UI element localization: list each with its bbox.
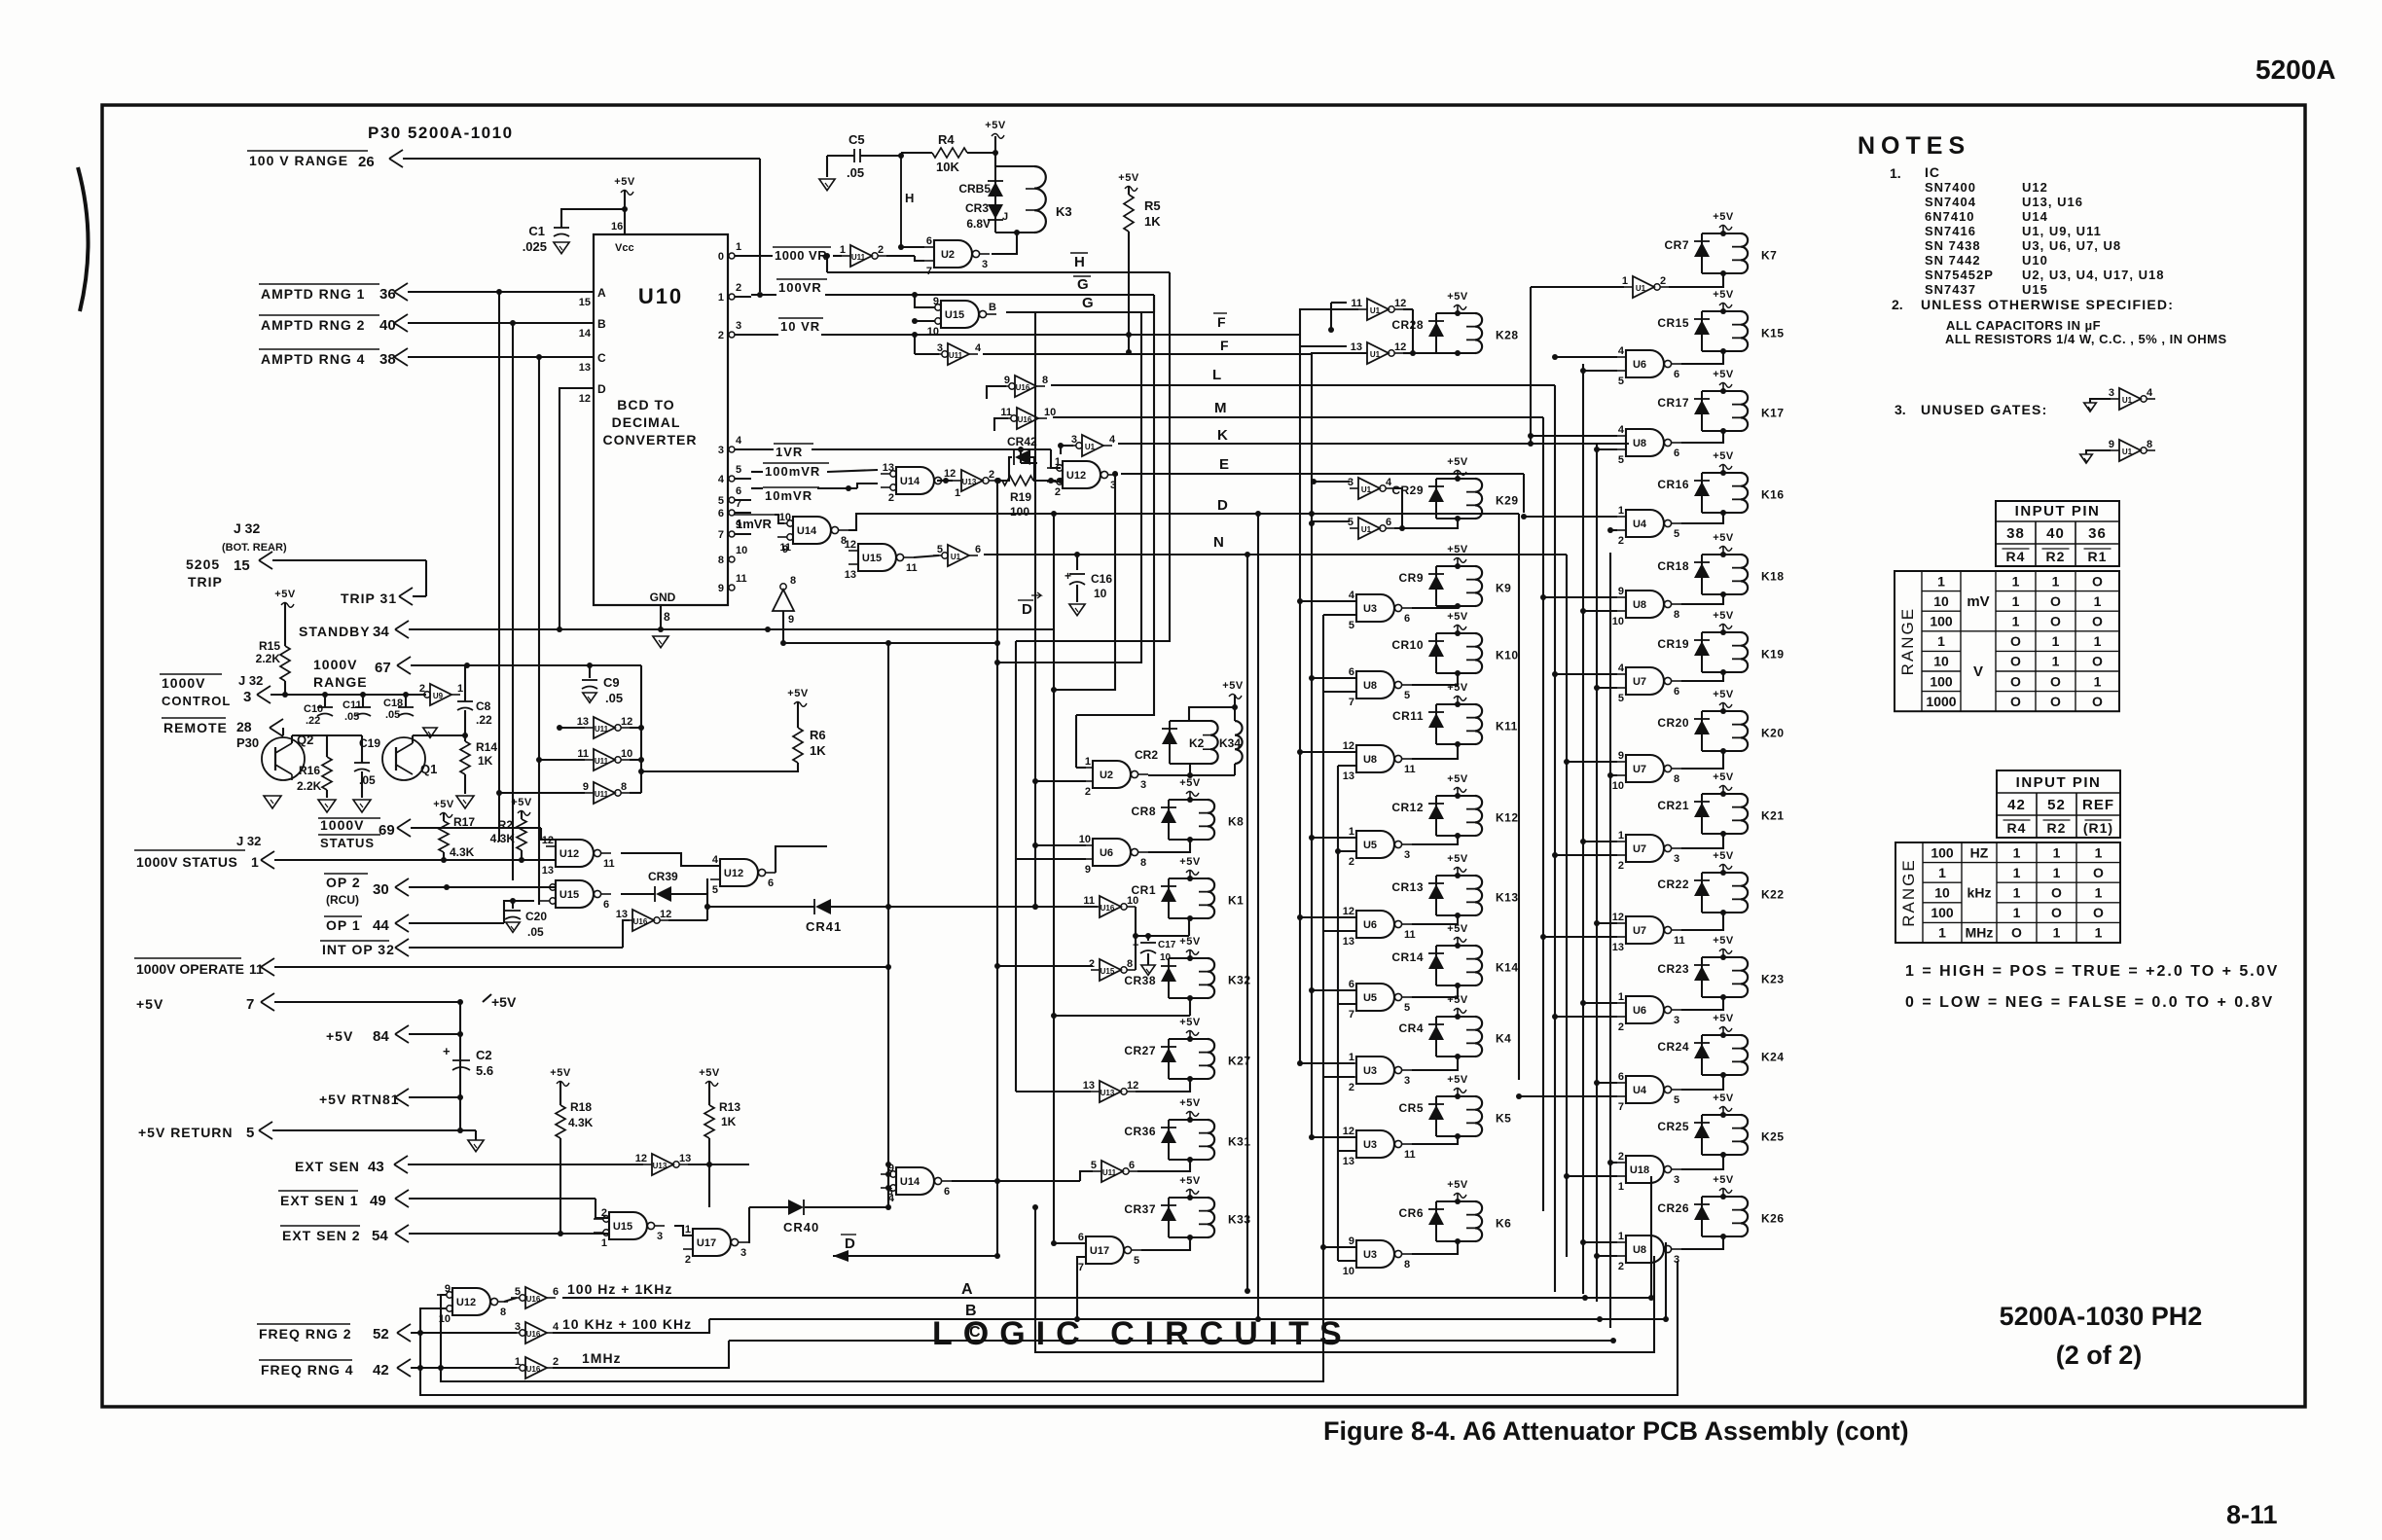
svg-text:C17: C17: [1158, 940, 1176, 950]
net D bus: [848, 514, 1519, 530]
svg-text:U11: U11: [851, 253, 866, 262]
svg-text:CR11: CR11: [1392, 709, 1424, 723]
svg-text:K13: K13: [1496, 891, 1519, 905]
svg-text:100: 100: [1931, 905, 1954, 920]
svg-text:4: 4: [736, 435, 742, 447]
nor gate U15c: [941, 301, 979, 328]
svg-text:0: 0: [718, 251, 724, 263]
svg-text:100: 100: [1010, 505, 1029, 519]
svg-text:+5V: +5V: [433, 799, 454, 810]
svg-text:U6: U6: [1633, 359, 1646, 371]
svg-text:5: 5: [515, 1286, 521, 1298]
svg-text:7: 7: [1349, 1009, 1354, 1021]
svg-text:K10: K10: [1496, 649, 1519, 663]
svg-text:1.: 1.: [1890, 165, 1901, 181]
svg-text:R6: R6: [810, 728, 826, 742]
capacitor C17: [1147, 936, 1149, 941]
svg-text:K9: K9: [1496, 582, 1511, 595]
svg-text:SN7416: SN7416: [1925, 224, 1976, 238]
svg-text:G: G: [1082, 295, 1094, 311]
svg-text:3.: 3.: [1895, 402, 1906, 417]
nand gate U7 colC5: [1626, 755, 1664, 782]
IC U10 BCD to decimal converter: [594, 234, 728, 605]
svg-text:U2: U2: [1100, 770, 1113, 781]
svg-text:7: 7: [246, 996, 254, 1013]
svg-text:U1: U1: [1370, 306, 1381, 315]
wire colB inputs: [1314, 481, 1350, 483]
U10 pin 12: [569, 387, 594, 389]
svg-text:5: 5: [712, 884, 718, 896]
svg-text:CR41: CR41: [806, 919, 842, 934]
svg-text:A: A: [961, 1281, 973, 1298]
net H: [900, 156, 902, 247]
wire K3 bottom to U2: [992, 233, 1017, 254]
svg-text:+5V: +5V: [985, 120, 1006, 131]
svg-text:+5V: +5V: [699, 1067, 720, 1079]
wire U6 to relay C: [1681, 997, 1723, 1010]
svg-text:1: 1: [2053, 844, 2061, 860]
svg-text:O: O: [2010, 673, 2021, 689]
svg-text:B: B: [965, 1303, 977, 1319]
svg-text:3: 3: [1404, 1075, 1410, 1087]
svg-text:13: 13: [1083, 1080, 1095, 1092]
svg-text:9: 9: [1618, 586, 1624, 597]
svg-text:4: 4: [712, 854, 719, 866]
svg-text:1: 1: [2012, 593, 2020, 609]
svg-text:ALL RESISTORS 1/4 W, C.C. ,: ALL RESISTORS 1/4 W, C.C. , 5% , IN OHMS: [1945, 332, 2227, 346]
svg-text:2: 2: [1618, 1021, 1624, 1033]
svg-text:1: 1: [2095, 885, 2103, 901]
svg-text:U13: U13: [1101, 1089, 1115, 1097]
svg-text:P30 5200A-1010: P30 5200A-1010: [368, 124, 514, 142]
svg-text:+5V: +5V: [1447, 1179, 1468, 1191]
svg-text:STANDBY: STANDBY: [299, 624, 371, 639]
net L bus: [1051, 384, 1555, 386]
svg-text:13: 13: [1612, 942, 1624, 953]
svg-text:10mVR: 10mVR: [765, 488, 812, 503]
relay K8: [1168, 800, 1170, 840]
svg-text:0 = LOW = NEG = FALSE = 0.0: 0 = LOW = NEG = FALSE = 0.0 TO + 0.8V: [1905, 994, 2274, 1011]
svg-text:CONTROL: CONTROL: [162, 694, 231, 708]
wire colC gate 10 inputs: [1610, 1162, 1617, 1164]
svg-text:K12: K12: [1496, 811, 1519, 825]
wire to U12d: [1058, 478, 1064, 483]
svg-text:8: 8: [718, 555, 724, 566]
svg-text:12: 12: [845, 539, 856, 551]
svg-text:U15: U15: [559, 889, 579, 901]
svg-text:U8: U8: [1633, 438, 1646, 449]
svg-text:R2: R2: [498, 818, 514, 832]
svg-text:O: O: [2092, 694, 2103, 709]
svg-text:5: 5: [246, 1125, 254, 1141]
inverter U1 K7: [1633, 276, 1654, 298]
svg-text:11: 11: [736, 573, 747, 585]
svg-text:8: 8: [2147, 439, 2152, 450]
svg-text:SN 7438: SN 7438: [1925, 238, 1981, 253]
svg-text:O: O: [2010, 654, 2021, 669]
svg-text:1: 1: [1937, 573, 1945, 589]
svg-text:U1: U1: [1636, 284, 1646, 293]
nor gate U14d: [896, 1167, 934, 1195]
svg-text:R4: R4: [2006, 549, 2026, 564]
svg-text:CR14: CR14: [1391, 950, 1424, 964]
inverter U11f: [1101, 1161, 1123, 1182]
svg-text:+5V: +5V: [1713, 850, 1734, 862]
wire C riser from freq: [553, 1341, 729, 1368]
wire U6 to relay: [1412, 915, 1458, 924]
svg-text:O: O: [2050, 694, 2061, 709]
svg-text:1: 1: [2053, 925, 2061, 941]
svg-text:O: O: [2050, 593, 2061, 609]
svg-text:CR18: CR18: [1657, 559, 1689, 573]
page border frame: [102, 105, 2305, 1407]
svg-text:10: 10: [1612, 780, 1624, 792]
svg-text:10: 10: [1933, 593, 1949, 609]
nand gate U6 colB4: [1356, 911, 1394, 938]
svg-text:10: 10: [779, 512, 791, 523]
buffer U1 K: [1082, 435, 1103, 456]
svg-text:U11: U11: [595, 790, 609, 799]
svg-text:K1: K1: [1228, 894, 1244, 908]
nor gate U12a: [556, 840, 594, 867]
svg-text:DECIMAL: DECIMAL: [612, 414, 681, 430]
inverter U16c: [525, 1322, 547, 1343]
svg-text:EXT SEN: EXT SEN: [295, 1159, 360, 1174]
wire colA inputs: [1076, 767, 1086, 769]
svg-text:1K: 1K: [810, 743, 826, 758]
net F bus: [983, 353, 1312, 355]
wire U3 to relay: [1412, 1057, 1458, 1070]
nand gate U2a: [934, 240, 972, 268]
wire K32 bottom feed: [1189, 998, 1191, 1016]
nand gate U8 colC11: [1626, 1236, 1664, 1263]
relay K32: [1168, 958, 1170, 998]
wire colC gate 0 inputs: [1555, 356, 1617, 358]
svg-text:8: 8: [1127, 958, 1133, 970]
svg-text:11: 11: [1404, 929, 1416, 941]
svg-text:P30: P30: [236, 735, 259, 750]
svg-text:R4: R4: [938, 132, 955, 147]
wire U3 to relay: [1412, 1136, 1458, 1144]
svg-text:15: 15: [579, 297, 591, 308]
relay K18: [1701, 555, 1703, 594]
svg-text:1: 1: [2094, 673, 2102, 689]
relay K9: [1435, 566, 1437, 606]
svg-text:4.3K: 4.3K: [568, 1116, 594, 1129]
inverter U16a: [632, 910, 654, 931]
wire riser 1360: [1322, 615, 1324, 1261]
nand gate U17b: [1086, 1236, 1124, 1264]
ground at R16: [318, 800, 336, 812]
table input pin 38 40 36: [1996, 501, 2119, 566]
ground at C5: [826, 156, 828, 177]
relay K23: [1701, 957, 1703, 997]
svg-text:CR12: CR12: [1391, 801, 1424, 814]
svg-text:7: 7: [1618, 1101, 1624, 1113]
wire U5 to relay: [1412, 985, 1458, 997]
wire U7 to relay C: [1681, 834, 1723, 848]
svg-text:U13: U13: [962, 478, 977, 486]
svg-text:6: 6: [603, 899, 609, 911]
svg-text:U16: U16: [526, 1295, 541, 1304]
svg-text:1000V STATUS: 1000V STATUS: [136, 854, 237, 870]
svg-text:+5V: +5V: [1179, 856, 1201, 868]
svg-text:12: 12: [542, 835, 554, 846]
svg-text:11: 11: [1404, 764, 1416, 775]
svg-text:D: D: [1022, 601, 1032, 618]
svg-text:3: 3: [657, 1231, 663, 1242]
svg-text:6: 6: [718, 508, 724, 519]
svg-text:C8: C8: [476, 699, 491, 713]
svg-text:5: 5: [1674, 528, 1679, 540]
svg-text:84: 84: [373, 1028, 389, 1045]
svg-text:REF: REF: [2082, 797, 2114, 813]
svg-text:C: C: [597, 351, 606, 365]
wire U8 to relay C: [1681, 1236, 1723, 1249]
wire U6a to K8: [1148, 840, 1190, 852]
svg-text:+5V: +5V: [1179, 1175, 1201, 1187]
svg-text:C11: C11: [343, 699, 362, 711]
svg-text:1: 1: [515, 1356, 521, 1368]
svg-text:7: 7: [1349, 697, 1354, 708]
svg-text:H: H: [1074, 254, 1085, 270]
svg-text:O: O: [2010, 694, 2021, 709]
inverter U16d: [525, 1357, 547, 1379]
svg-text:13: 13: [579, 362, 591, 374]
svg-text:TRIP 31: TRIP 31: [341, 591, 397, 606]
wire Q2 collector: [291, 735, 293, 743]
svg-text:U15: U15: [2022, 282, 2048, 297]
svg-text:U3: U3: [1363, 1249, 1377, 1261]
wire U4 to relay C: [1681, 513, 1723, 523]
relay K31: [1168, 1120, 1170, 1160]
transistor Q2: [262, 737, 305, 780]
svg-text:H: H: [905, 191, 914, 205]
svg-text:+5V: +5V: [1179, 777, 1201, 789]
svg-text:6: 6: [1349, 666, 1354, 678]
wire U14d out: [952, 1180, 1080, 1182]
svg-text:CR13: CR13: [1391, 880, 1424, 894]
svg-text:+5V: +5V: [1447, 773, 1468, 785]
svg-text:K23: K23: [1761, 973, 1785, 986]
svg-text:13: 13: [616, 909, 628, 920]
svg-text:6: 6: [1129, 1160, 1135, 1171]
svg-text:52: 52: [373, 1326, 389, 1343]
wire U12c inputs: [441, 1295, 447, 1368]
inverter U1 K29a: [1358, 478, 1380, 499]
wire U11a to U2a: [886, 255, 915, 257]
buffer U16 M: [1017, 408, 1038, 429]
relay K3: [994, 166, 996, 233]
svg-text:2: 2: [419, 683, 425, 695]
svg-text:100: 100: [1931, 844, 1954, 860]
svg-text:1: 1: [2094, 593, 2102, 609]
wire U4 to relay C: [1681, 1075, 1723, 1090]
svg-text:3: 3: [718, 445, 724, 456]
svg-text:L: L: [1212, 367, 1221, 383]
svg-text:O: O: [2051, 885, 2062, 901]
svg-text:O: O: [2092, 654, 2103, 669]
wire U12a to U12b: [621, 853, 720, 866]
svg-text:11: 11: [906, 562, 918, 574]
svg-text:EXT SEN 2: EXT SEN 2: [282, 1228, 361, 1243]
svg-text:+5V: +5V: [1713, 369, 1734, 380]
nand gate U4 colC2: [1626, 510, 1664, 537]
svg-text:R13: R13: [719, 1100, 740, 1114]
wire U3 to relay: [1412, 606, 1458, 608]
svg-text:6: 6: [1078, 1232, 1084, 1243]
svg-text:R15: R15: [259, 639, 280, 653]
svg-text:U1: U1: [1361, 525, 1372, 534]
svg-text:+5V: +5V: [1179, 1017, 1201, 1028]
inverter U13a: [652, 1154, 673, 1175]
svg-text:CR39: CR39: [648, 870, 678, 883]
svg-text:43: 43: [368, 1159, 384, 1175]
svg-text:.05: .05: [344, 711, 359, 723]
resistor R19 100: [1002, 476, 1033, 485]
svg-text:5200A: 5200A: [2256, 54, 2336, 85]
svg-text:4: 4: [2147, 387, 2153, 399]
unused gate 2: [2119, 440, 2141, 461]
svg-text:38: 38: [2006, 525, 2025, 542]
svg-text:SN7400: SN7400: [1925, 180, 1976, 195]
svg-text:IC: IC: [1925, 164, 1940, 180]
relay K1: [1168, 878, 1170, 918]
inverter U11d: [594, 749, 615, 770]
svg-text:U7: U7: [1633, 676, 1646, 688]
svg-text:+5V: +5V: [1447, 456, 1468, 468]
svg-text:+5V: +5V: [1713, 211, 1734, 223]
wire bus B down: [512, 323, 514, 880]
svg-text:9: 9: [782, 544, 788, 555]
wire U18 to relay C: [1681, 1155, 1723, 1169]
svg-text:CR25: CR25: [1657, 1120, 1689, 1133]
svg-text:CR10: CR10: [1391, 638, 1424, 652]
wire Q1 base link: [412, 735, 414, 743]
svg-text:1K: 1K: [478, 754, 493, 768]
svg-text:36: 36: [2088, 525, 2107, 542]
svg-text:+5V: +5V: [1447, 611, 1468, 623]
buffer U16 L: [1015, 376, 1036, 397]
svg-text:42: 42: [2007, 797, 2026, 813]
svg-text:U3: U3: [1363, 1065, 1377, 1077]
svg-text:K17: K17: [1761, 407, 1785, 420]
svg-text:13: 13: [1351, 341, 1362, 353]
svg-text:40: 40: [2046, 525, 2065, 542]
svg-text:4: 4: [1618, 663, 1625, 674]
svg-text:INT OP 32: INT OP 32: [322, 942, 395, 957]
svg-text:U17: U17: [697, 1237, 716, 1249]
wire riser 1049: [1020, 451, 1022, 463]
svg-text:K19: K19: [1761, 648, 1785, 662]
svg-text:U10: U10: [638, 284, 683, 308]
svg-text:U16: U16: [633, 917, 648, 926]
svg-text:K11: K11: [1496, 720, 1518, 734]
svg-text:38: 38: [379, 351, 396, 368]
svg-text:1: 1: [955, 487, 960, 499]
svg-text:10 KHz + 100 KHz: 10 KHz + 100 KHz: [562, 1316, 692, 1332]
svg-text:A: A: [597, 286, 606, 300]
wire U8 to relay: [1412, 744, 1458, 759]
svg-text:7: 7: [1078, 1262, 1084, 1273]
svg-text:4: 4: [975, 342, 982, 354]
svg-text:1000: 1000: [1926, 694, 1956, 709]
svg-text:D: D: [597, 382, 606, 396]
wire bus C down: [538, 357, 540, 905]
relay K15: [1701, 311, 1703, 351]
svg-text:CR27: CR27: [1124, 1044, 1156, 1057]
nand gate U7 colC4: [1626, 667, 1664, 695]
svg-text:6: 6: [768, 877, 774, 889]
svg-text:1: 1: [1055, 456, 1061, 468]
svg-text:E: E: [1219, 456, 1229, 473]
svg-text:2: 2: [685, 1254, 691, 1266]
svg-text:13: 13: [883, 462, 894, 474]
wire U7 to relay C: [1681, 751, 1723, 769]
svg-text:6: 6: [944, 1186, 950, 1198]
net N bus: [984, 554, 1567, 555]
wire U17a out to CR40: [748, 1207, 749, 1242]
relay K17: [1701, 391, 1703, 431]
nand gate U8 colB2: [1356, 745, 1394, 772]
svg-text:INPUT PIN: INPUT PIN: [2016, 774, 2102, 791]
svg-text:U1: U1: [2122, 448, 2133, 456]
svg-text:12: 12: [579, 393, 591, 405]
svg-text:K20: K20: [1761, 727, 1785, 740]
svg-text:C1: C1: [528, 224, 545, 238]
svg-text:K2: K2: [1189, 736, 1205, 750]
nand gate U2b: [1093, 761, 1131, 788]
svg-text:1: 1: [1622, 275, 1628, 287]
svg-text:R2: R2: [2046, 549, 2066, 564]
svg-text:11: 11: [1083, 895, 1095, 907]
wire riser 1025: [996, 481, 998, 1256]
svg-text:2: 2: [1089, 958, 1095, 970]
svg-text:U11: U11: [595, 757, 609, 766]
svg-text:+5V: +5V: [326, 1028, 353, 1044]
wire U12c to U16b: [504, 1298, 517, 1302]
svg-text:U4: U4: [1633, 519, 1647, 530]
svg-text:9: 9: [445, 1283, 451, 1295]
svg-text:OP 1: OP 1: [326, 917, 361, 933]
svg-text:42: 42: [373, 1362, 389, 1379]
wire buffers out rail: [630, 727, 641, 729]
svg-text:.05: .05: [847, 165, 864, 180]
svg-text:12: 12: [1394, 298, 1406, 309]
svg-text:.025: .025: [523, 239, 547, 254]
nand gate U6 colC0: [1626, 350, 1664, 377]
svg-text:2: 2: [878, 244, 884, 256]
relay K24: [1701, 1035, 1703, 1075]
svg-text:CR24: CR24: [1657, 1040, 1689, 1054]
wire U3 to relay: [1412, 1241, 1458, 1254]
svg-text:10: 10: [1933, 654, 1949, 669]
svg-text:2: 2: [1055, 486, 1061, 498]
svg-text:K3: K3: [1056, 204, 1072, 219]
svg-text:U12: U12: [456, 1297, 476, 1308]
svg-text:AMPTD RNG 2: AMPTD RNG 2: [261, 317, 365, 333]
svg-text:U12: U12: [724, 868, 743, 879]
svg-text:U8: U8: [1633, 1244, 1646, 1256]
svg-text:1: 1: [1618, 830, 1624, 842]
net H bus: [827, 271, 1170, 273]
svg-text:R2: R2: [2047, 820, 2067, 836]
svg-text:5.6: 5.6: [476, 1063, 493, 1078]
svg-text:C10: C10: [304, 703, 323, 715]
svg-text:3: 3: [1674, 1015, 1679, 1026]
wire colC gate 1 inputs: [1531, 435, 1617, 437]
svg-text:(2 of 2): (2 of 2): [2056, 1341, 2143, 1370]
